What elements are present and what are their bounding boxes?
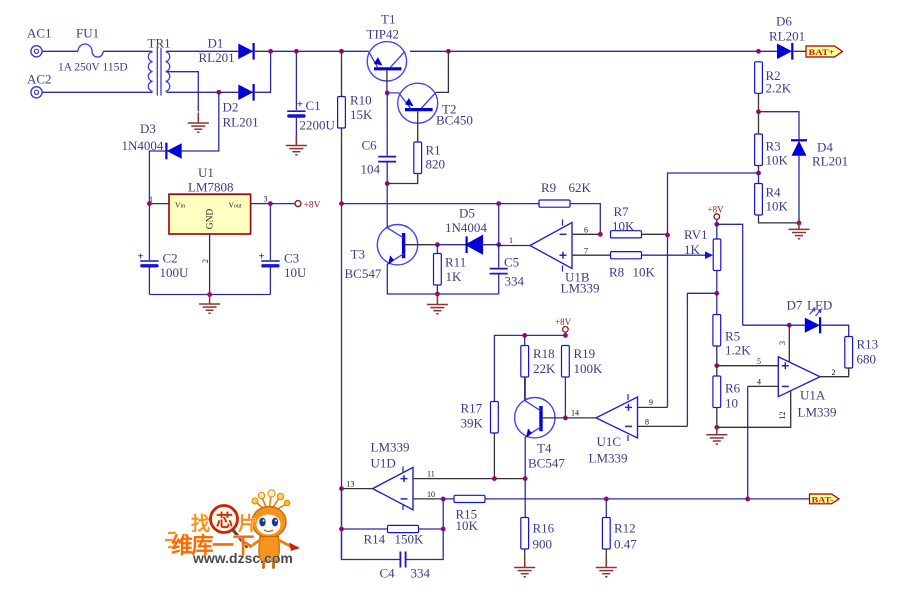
resistor R16 900 — [521, 479, 529, 567]
label RV1 — [684, 227, 708, 242]
svg-text:12: 12 — [778, 412, 787, 420]
label RL201 D4 — [812, 154, 848, 169]
svg-text:13: 13 — [347, 480, 355, 489]
power marker +8V at U1 — [295, 201, 321, 211]
svg-text:1N4004: 1N4004 — [445, 220, 487, 235]
node pin4 BAT- — [745, 497, 750, 502]
node D4 R4 ground — [797, 221, 802, 226]
wire C5 top lead — [498, 245, 500, 268]
label 334 C5 — [505, 274, 525, 289]
label R3 — [766, 139, 781, 154]
wire top rail to T1 emitter — [342, 50, 369, 52]
pin T4 base — [543, 417, 566, 419]
svg-text:820: 820 — [426, 157, 446, 172]
node R19 top — [563, 333, 568, 338]
pin 12 U1A — [717, 391, 791, 428]
label 10U — [284, 265, 307, 280]
terminal AC2 — [31, 87, 42, 98]
pin 3 U1A power — [778, 325, 789, 362]
label 104 — [361, 162, 381, 177]
svg-text:BC450: BC450 — [436, 113, 473, 128]
svg-text:AC1: AC1 — [27, 26, 52, 41]
label AC1 — [27, 26, 52, 41]
wire T3 emitter — [387, 264, 498, 294]
pin 14 U1C output — [565, 409, 596, 418]
node R12 top — [604, 497, 609, 502]
svg-text:U1: U1 — [198, 165, 214, 180]
svg-text:LM339: LM339 — [798, 405, 837, 420]
svg-text:U1C: U1C — [597, 434, 622, 449]
terminal AC1 — [31, 46, 42, 57]
svg-text:U1D: U1D — [371, 456, 396, 471]
svg-text:+8V: +8V — [555, 317, 572, 327]
label 1N4004 D5 — [445, 220, 487, 235]
label 39K — [461, 416, 484, 431]
resistor R10 15K — [338, 51, 346, 203]
node T4 base R19 U1C out — [563, 416, 568, 421]
ground R6 U1A — [706, 424, 727, 444]
label 22K — [533, 361, 556, 376]
node R9 R7 pin6 — [598, 232, 603, 237]
svg-text:1A 250V 115D: 1A 250V 115D — [58, 62, 128, 74]
svg-text:R17: R17 — [461, 401, 483, 416]
svg-text:R6: R6 — [725, 381, 741, 396]
transistor T4 BC547 — [515, 398, 555, 438]
node D6 R2 — [756, 49, 761, 54]
wire top rail T1 to T2 collector node — [410, 50, 448, 52]
wire C4 right leg — [407, 529, 444, 560]
pin 11 U1D — [413, 470, 525, 479]
label C4 — [380, 566, 396, 581]
resistor R17 39K — [491, 402, 499, 479]
label BC547 T4 — [528, 456, 565, 471]
label TR1 — [148, 36, 171, 51]
svg-text:3: 3 — [778, 341, 787, 345]
svg-text:T4: T4 — [537, 441, 552, 456]
label 1K R11 — [446, 269, 463, 284]
svg-text:+: + — [259, 251, 265, 263]
pin 5 U1A — [717, 357, 779, 366]
svg-text:LM339: LM339 — [561, 281, 600, 296]
wire LED to R13 — [821, 325, 849, 336]
op-amp U1D LM339 — [373, 467, 413, 511]
svg-text:找: 找 — [191, 513, 210, 535]
svg-text:R5: R5 — [725, 329, 740, 344]
wire C4 left leg — [342, 529, 400, 560]
svg-text:BAT-: BAT- — [812, 496, 834, 505]
resistor R11 1K — [434, 245, 442, 294]
wire AC2 to TR1 — [43, 91, 153, 93]
label 1N4004 D3 — [122, 138, 164, 153]
label 680 — [857, 352, 877, 367]
svg-text:RV1: RV1 — [684, 227, 708, 242]
svg-text:334: 334 — [411, 566, 431, 581]
svg-text:8: 8 — [645, 418, 649, 427]
wire T4 collector — [524, 377, 526, 401]
label R1 — [426, 143, 441, 158]
svg-text:D5: D5 — [459, 206, 475, 221]
svg-text:芯: 芯 — [216, 511, 233, 531]
svg-text:R14: R14 — [364, 532, 386, 547]
label C2 — [163, 251, 178, 266]
label 2200U — [300, 118, 336, 133]
label D5 — [459, 206, 475, 221]
capacitor C4 334 — [400, 552, 405, 568]
resistor R13 680 — [820, 337, 853, 377]
ground R12 — [596, 557, 617, 577]
wire comparator output rail — [342, 203, 540, 205]
svg-text:D2: D2 — [223, 100, 239, 115]
label 10K R4 — [766, 199, 789, 214]
svg-text:R19: R19 — [574, 346, 596, 361]
node R18 top — [522, 333, 527, 338]
ground C1 — [286, 135, 307, 155]
svg-text:100K: 100K — [574, 361, 604, 376]
node R5 R6 pin5 — [714, 363, 719, 368]
wire C5 bottom lead — [498, 275, 500, 295]
resistor R6 10 — [713, 366, 721, 428]
node R6 ground pin12 — [714, 425, 719, 430]
wire ground bus C2-C3 — [149, 294, 270, 296]
node R10 top — [339, 49, 344, 54]
label 1.2K — [725, 343, 751, 358]
svg-text:7: 7 — [584, 247, 588, 256]
svg-text:6: 6 — [584, 226, 588, 235]
resistor R18 22K — [521, 335, 529, 399]
svg-text:AC2: AC2 — [27, 72, 52, 87]
wire T2 collector to rail — [436, 51, 449, 92]
wire fuse to TR1 — [103, 50, 152, 52]
wire RV1 bottom to U1C pin8 — [687, 293, 716, 426]
label C1 — [306, 98, 321, 113]
label R14 — [364, 532, 386, 547]
label D1 — [208, 36, 224, 51]
wire pin4 to BAT- sense — [747, 386, 749, 499]
wire C1 top lead — [295, 51, 297, 110]
label D6 — [776, 14, 792, 29]
svg-text:1: 1 — [509, 236, 513, 245]
label R15 — [456, 507, 478, 522]
svg-text:D1: D1 — [208, 36, 224, 51]
svg-text:150K: 150K — [395, 532, 425, 547]
svg-text:2: 2 — [201, 259, 210, 263]
svg-text:C6: C6 — [362, 138, 378, 153]
svg-text:FU1: FU1 — [76, 26, 99, 41]
wire LED feed — [743, 324, 805, 326]
svg-text:LM339: LM339 — [589, 451, 628, 466]
svg-text:1.2K: 1.2K — [725, 343, 751, 358]
ground D4 R4 — [789, 219, 810, 239]
label U1D — [371, 456, 396, 471]
pin 2 U1 — [201, 234, 210, 295]
svg-text:片: 片 — [238, 512, 257, 535]
capacitor C3 10U — [259, 251, 280, 268]
svg-text:334: 334 — [505, 274, 525, 289]
transistor T1 TIP42 — [367, 42, 406, 93]
capacitor C2 100U — [138, 251, 159, 268]
wire D2 tap down to D3 — [182, 92, 219, 151]
ground T3 R11 C5 — [427, 294, 448, 314]
pin 8 U1C — [638, 418, 688, 427]
pin 1 U1B output — [499, 236, 530, 246]
svg-text:3: 3 — [264, 195, 268, 204]
resistor R2 2.2K — [755, 62, 763, 112]
regulator U1 LM7808 — [169, 194, 251, 234]
wire R14 left vertical — [341, 489, 343, 529]
svg-text:10U: 10U — [284, 265, 307, 280]
label R16 — [533, 521, 555, 536]
fuse FU1 — [78, 44, 103, 57]
svg-text:BC547: BC547 — [345, 266, 382, 281]
label 100U — [160, 265, 190, 280]
svg-text:10K: 10K — [612, 219, 635, 234]
op-amp U1B LM339 — [530, 220, 572, 272]
label LM339 U1D — [371, 440, 410, 455]
svg-text:+: + — [138, 251, 144, 263]
svg-text:D6: D6 — [776, 14, 792, 29]
resistor R14 150K — [342, 525, 444, 532]
resistor R19 100K — [562, 346, 570, 418]
label 2.2K — [766, 81, 792, 96]
svg-text:C4: C4 — [380, 566, 396, 581]
svg-text:1K: 1K — [446, 269, 463, 284]
label D2 — [223, 100, 239, 115]
svg-text:5: 5 — [757, 357, 761, 366]
resistor R3 10K — [755, 112, 763, 173]
svg-text:104: 104 — [361, 162, 381, 177]
resistor R4 10K — [755, 173, 799, 223]
op-amp U1A LM339 — [778, 357, 820, 397]
svg-text:RL201: RL201 — [769, 29, 805, 44]
label RL201 D2 — [223, 115, 259, 130]
label R19 — [574, 346, 596, 361]
label LM7808 — [188, 180, 234, 195]
svg-text:14: 14 — [571, 409, 579, 418]
net flag BAT- — [810, 494, 840, 505]
svg-text:R16: R16 — [533, 521, 555, 536]
wire TR1 secondary bottom to D2 — [167, 91, 239, 93]
pin 9 U1C — [638, 398, 668, 407]
node U1B output D5 C5 — [496, 242, 501, 247]
LED D7 — [805, 307, 822, 333]
pin 13 U1D output — [342, 480, 373, 489]
label R11 — [445, 255, 466, 270]
svg-text:900: 900 — [533, 537, 553, 552]
ground R16 — [514, 557, 535, 577]
transformer TR1 — [148, 48, 170, 96]
wire rail tap down to U1B output node — [498, 204, 500, 245]
svg-text:R8: R8 — [609, 265, 624, 280]
label 10K R15 — [456, 518, 479, 533]
label R7 — [614, 204, 630, 219]
wire C6 top lead — [386, 93, 388, 156]
svg-text:4: 4 — [757, 378, 761, 387]
label D4 — [817, 140, 833, 155]
svg-text:22K: 22K — [533, 361, 556, 376]
svg-text:C5: C5 — [504, 255, 519, 270]
svg-text:10: 10 — [725, 396, 738, 411]
label R5 — [725, 329, 740, 344]
wire T3 collector — [386, 184, 388, 228]
label RL201 D6 — [769, 29, 805, 44]
node R14 right — [441, 527, 446, 532]
pin 4 U1A — [748, 378, 779, 387]
node T2 collector rail — [446, 49, 451, 54]
svg-text:LED: LED — [807, 298, 832, 313]
node T1 base / T2 emitter — [385, 91, 390, 96]
watermark logo dzsc — [165, 490, 300, 568]
svg-text:U1A: U1A — [800, 388, 826, 403]
label R8 10K — [609, 265, 656, 280]
svg-text:+8V: +8V — [708, 205, 725, 215]
capacitor C6 104 — [378, 157, 396, 162]
label U1 — [198, 165, 214, 180]
svg-text:BC547: BC547 — [528, 456, 565, 471]
svg-text:R4: R4 — [766, 185, 782, 200]
wire +8V to LED feed — [717, 224, 743, 325]
node R2 R3 D4 — [756, 109, 761, 114]
svg-text:R10: R10 — [350, 93, 372, 108]
svg-text:11: 11 — [427, 470, 435, 479]
label R4 — [766, 185, 782, 200]
svg-text:LM339: LM339 — [371, 440, 410, 455]
svg-text:10K: 10K — [633, 265, 656, 280]
wire top rail D1 to C1 to R10 — [271, 50, 342, 52]
node RV1 top — [714, 222, 719, 227]
resistor R5 1.2K — [713, 293, 721, 365]
wire D2 cathode up to top rail — [255, 51, 271, 92]
resistor R7 10K — [611, 231, 668, 238]
net flag BAT+ — [806, 46, 843, 57]
diode D5 1N4004 — [437, 236, 498, 253]
node R3 R4 tap — [756, 171, 761, 176]
svg-text:2: 2 — [832, 368, 836, 377]
svg-text:TR1: TR1 — [148, 36, 171, 51]
svg-text:39K: 39K — [461, 416, 484, 431]
capacitor C1 2200U — [287, 99, 305, 118]
label BC547 T3 — [345, 266, 382, 281]
label 900 — [533, 537, 553, 552]
label R18 — [533, 346, 555, 361]
wire C1 bottom lead — [295, 118, 297, 144]
label 334 C4 — [411, 566, 431, 581]
pin 7 U1B — [572, 247, 611, 256]
svg-text:RL201: RL201 — [812, 154, 848, 169]
label R12 — [614, 521, 636, 536]
label T1 — [381, 12, 395, 27]
node R14 left — [339, 527, 344, 532]
label R17 — [461, 401, 483, 416]
wire long left vertical to U1D — [341, 204, 343, 560]
op-amp U1C LM339 — [596, 394, 638, 441]
svg-text:10K: 10K — [456, 518, 479, 533]
resistor R8 10K — [611, 252, 692, 259]
wire R2 bottom to D4 top — [759, 112, 800, 141]
wire T2 base to R1 — [417, 122, 419, 143]
label R9 62K — [541, 180, 592, 195]
svg-text:10K: 10K — [766, 153, 789, 168]
node D1-D2 junction — [268, 49, 273, 54]
resistor R1 820 — [387, 142, 421, 184]
node C1 top — [294, 49, 299, 54]
wire TR1 secondary top to D1 — [167, 50, 239, 52]
power marker +8V at R19 — [555, 317, 572, 335]
wire C3 bottom lead — [269, 268, 271, 295]
svg-text:D7: D7 — [787, 298, 803, 313]
wire pin9 to R7 node — [667, 235, 669, 407]
wire BAT- sense line — [485, 498, 810, 500]
ground U1 — [199, 294, 220, 314]
wire R14 right vertical — [442, 499, 444, 529]
node R17 bottom pin11 — [492, 476, 497, 481]
svg-text:2.2K: 2.2K — [766, 81, 792, 96]
node C6 R1 T3 collector — [385, 181, 390, 186]
label R6 — [725, 381, 741, 396]
label 10 R6 — [725, 396, 738, 411]
svg-text:C3: C3 — [284, 251, 299, 266]
wire C2 top lead — [148, 204, 150, 260]
label T3 — [351, 247, 365, 262]
wire C2 bottom lead — [148, 268, 150, 295]
svg-text:T1: T1 — [381, 12, 395, 27]
wire +8V bus to R17 — [494, 335, 565, 401]
label R2 — [766, 68, 781, 83]
node pin13 pullup — [339, 486, 344, 491]
label U1B — [565, 270, 590, 285]
pin 2 U1A output — [832, 368, 836, 377]
node D2 anode tap — [216, 90, 221, 95]
label 820 — [426, 157, 446, 172]
diode D4 RL201 — [791, 140, 807, 223]
svg-text:1K: 1K — [684, 242, 701, 257]
svg-text:0.47: 0.47 — [614, 537, 637, 552]
pin 6 U1B — [572, 226, 600, 235]
svg-text:R12: R12 — [614, 521, 636, 536]
svg-text:R9: R9 — [541, 180, 556, 195]
svg-text:TIP42: TIP42 — [367, 27, 400, 42]
label FU1 — [76, 26, 99, 41]
wire AC1 to fuse — [43, 50, 79, 52]
label 1K RV1 — [684, 242, 701, 257]
transistor T3 BC547 — [377, 225, 417, 265]
svg-text:LM7808: LM7808 — [188, 180, 234, 195]
node pin10 R15 — [441, 497, 446, 502]
label 100K — [574, 361, 604, 376]
wire C3 top lead — [269, 204, 271, 260]
svg-text:R13: R13 — [857, 337, 879, 352]
resistor R12 0.47 — [602, 499, 610, 567]
wire C6 bottom lead — [386, 163, 388, 184]
svg-text:R7: R7 — [614, 204, 630, 219]
pin T3 base — [405, 244, 437, 246]
svg-text:R18: R18 — [533, 346, 555, 361]
svg-text:D3: D3 — [140, 121, 156, 136]
svg-text:RL201: RL201 — [199, 50, 235, 65]
node R7 U1C sense — [665, 233, 670, 238]
node U1 pin1 — [147, 201, 152, 206]
wire T4 emitter — [524, 437, 526, 479]
node U1 pin3 — [268, 201, 273, 206]
svg-text:RL201: RL201 — [223, 115, 259, 130]
ground center tap — [188, 113, 209, 133]
label AC2 — [27, 72, 52, 87]
wire U1 output to +8V marker — [270, 203, 294, 205]
svg-text:2200U: 2200U — [300, 118, 336, 133]
svg-text:R1: R1 — [426, 143, 441, 158]
label TIP42 — [367, 27, 400, 42]
label LM339 U1C — [589, 451, 628, 466]
wire D1 cathode to node — [255, 50, 271, 52]
